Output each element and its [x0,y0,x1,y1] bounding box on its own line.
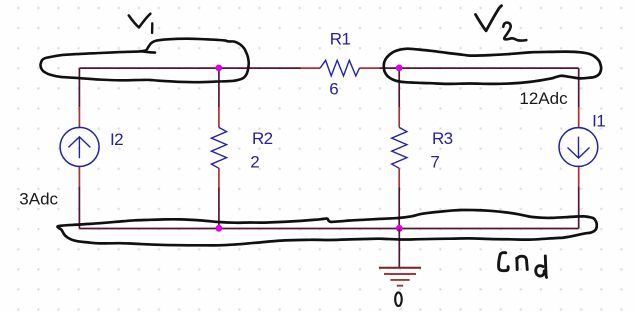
node dot bottom right junction [396,225,403,232]
wire R3 vertical branch [398,68,400,228]
current source I1 [559,108,598,187]
current source I2 [60,107,99,186]
node dot V1 (top left junction) [215,65,222,72]
resistor R1 [301,60,380,76]
resistor R2 [211,107,226,188]
svg-text:3Adc: 3Adc [19,189,58,208]
wire bottom ground rail [79,228,578,230]
svg-text:R1: R1 [330,30,351,49]
svg-text:R3: R3 [432,129,453,148]
svg-text:I2: I2 [110,130,123,149]
resistor R3 [392,107,407,188]
wire top-right segment (node V2 rail) [380,67,579,69]
node dot bottom left junction [216,225,223,232]
svg-text:12Adc: 12Adc [519,89,568,108]
annotation: hand-drawn loop around node V1 [40,39,248,82]
svg-text:R2: R2 [252,129,273,148]
node dot V2 (top right junction) [396,65,403,72]
svg-text:2: 2 [250,152,259,171]
ground symbol 0 [379,229,421,286]
svg-text:7: 7 [430,152,439,171]
annotation: handwritten label V2 [476,6,527,41]
wire left vertical (I2 branch) [78,68,80,228]
wire R2 vertical branch [218,68,220,228]
svg-text:I1: I1 [592,112,605,131]
annotation: hand-drawn loop around node V2 [384,49,601,84]
annotation: handwritten label Gnd [499,253,547,278]
wire right vertical (I1 branch) [578,68,580,228]
annotation: hand-drawn loop around ground rail [58,210,597,245]
svg-text:6: 6 [329,80,338,99]
ground net label 0 [395,292,402,306]
wire top-left segment (node V1 rail) [79,67,300,69]
annotation: handwritten label V1 [129,14,153,33]
